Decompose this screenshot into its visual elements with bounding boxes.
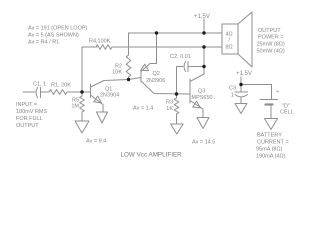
wire battery rail [241, 85, 272, 100]
node +1.5V rail [202, 31, 205, 34]
svg-text:BATTERY: BATTERY [257, 133, 282, 139]
svg-text:+: + [276, 89, 279, 95]
svg-text:C2, 0.01: C2, 0.01 [170, 54, 191, 60]
svg-text:INPUT =: INPUT = [16, 102, 37, 108]
node Q1 base [80, 90, 83, 93]
capacitor C2 [176, 67, 178, 95]
svg-text:8Ω: 8Ω [226, 45, 233, 51]
svg-text:CELL: CELL [280, 110, 294, 116]
wire feedback vertical node A [81, 47, 83, 92]
svg-text:2N3906: 2N3906 [146, 78, 165, 84]
svg-text:Av = 1.4: Av = 1.4 [133, 106, 153, 112]
transistor Q3 [189, 79, 191, 103]
svg-text:OUTPUT: OUTPUT [258, 28, 281, 34]
svg-text:1M: 1M [71, 104, 79, 110]
svg-text:25mW (8Ω): 25mW (8Ω) [257, 41, 285, 47]
wire output/feedback line to speaker [112, 46, 222, 48]
wire +1.5V rail [129, 32, 223, 34]
speaker cone [238, 12, 252, 67]
svg-text:Q2: Q2 [153, 71, 160, 77]
speaker box [222, 24, 238, 54]
ground R5 [75, 121, 89, 133]
ground R3 [171, 124, 184, 134]
node Q3 collector/C2 [202, 65, 205, 68]
svg-text:190mA (4Ω): 190mA (4Ω) [256, 154, 286, 160]
svg-text:Av = 191 (OPEN LOOP): Av = 191 (OPEN LOOP) [28, 26, 88, 32]
svg-text:Av = 5 (AS SHOWN): Av = 5 (AS SHOWN) [28, 33, 79, 39]
svg-text:R4,100K: R4,100K [89, 39, 111, 45]
capacitor C1 [36, 88, 37, 98]
wire R1 to Q1 base [67, 91, 91, 93]
svg-text:+1.5V: +1.5V [236, 71, 252, 77]
svg-text:2N3904: 2N3904 [100, 93, 119, 99]
battery B1 D cell [260, 99, 278, 101]
node Q2 emitter rail [155, 31, 158, 34]
svg-text:R3: R3 [166, 100, 173, 106]
ground battery [265, 119, 278, 130]
resistor R1 [49, 90, 67, 95]
svg-text:100mV RMS: 100mV RMS [16, 109, 48, 115]
svg-text:Av = 9.4: Av = 9.4 [86, 139, 106, 145]
resistor R4 [96, 45, 112, 50]
svg-text:CURRENT =: CURRENT = [257, 140, 289, 146]
svg-text:C3: C3 [229, 86, 236, 92]
resistor R3 [174, 98, 179, 114]
transistor Q1 [90, 84, 92, 98]
wire +1.5V right lead [240, 77, 242, 85]
resistor R2 [128, 33, 130, 55]
svg-text:50mW (4Ω): 50mW (4Ω) [257, 48, 285, 54]
transistor Q2 [140, 71, 142, 82]
node Q3 base/R3/C2 [175, 92, 178, 95]
resistor R5 [80, 96, 85, 112]
wire +1.5V top lead [203, 19, 205, 33]
svg-text:R1, 20K: R1, 20K [51, 83, 71, 89]
svg-text:Av = 14.5: Av = 14.5 [192, 140, 215, 146]
svg-text:OUTPUT: OUTPUT [16, 123, 39, 129]
wire input lead [23, 91, 35, 93]
svg-text:+1.5V: +1.5V [194, 14, 210, 20]
svg-text:/: / [229, 38, 231, 44]
svg-text:Av = R4 / R1: Av = R4 / R1 [28, 40, 59, 46]
node output/feedback [202, 45, 205, 48]
svg-text:POWER =: POWER = [258, 34, 284, 40]
svg-text:95mA (8Ω): 95mA (8Ω) [256, 147, 283, 153]
capacitor C3 [240, 85, 242, 93]
svg-text:Q3: Q3 [198, 89, 205, 95]
svg-text:FOR FULL: FOR FULL [16, 116, 43, 122]
wire R4 left lead [82, 46, 97, 48]
svg-text:1: 1 [231, 93, 234, 99]
node +1.5V battery [239, 83, 242, 86]
svg-text:LOW Vcc AMPLIFIER: LOW Vcc AMPLIFIER [121, 152, 183, 159]
svg-text:1K: 1K [166, 106, 173, 112]
node Q1 collector/R2 [127, 78, 130, 81]
ground C3 [235, 104, 247, 114]
svg-text:10K: 10K [112, 70, 122, 76]
ground Q1 [97, 112, 108, 123]
svg-text:C1, 1: C1, 1 [33, 82, 46, 88]
svg-text:MPS650: MPS650 [192, 95, 213, 101]
ground Q3 [197, 118, 209, 129]
